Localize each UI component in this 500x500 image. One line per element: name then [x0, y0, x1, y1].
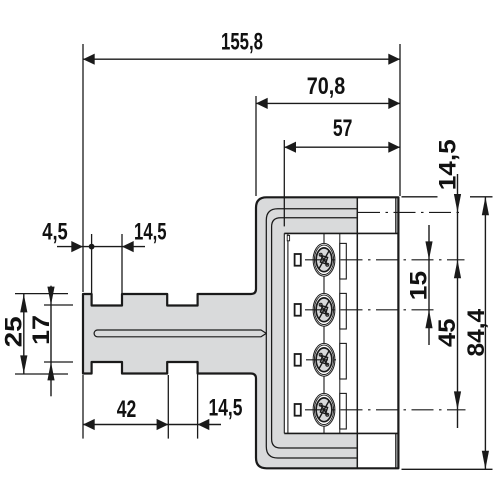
svg-text:25: 25 — [1, 316, 28, 347]
dimension 14,5 right — [434, 139, 461, 278]
housing outline stroke — [83, 197, 398, 468]
terminal screw 1 — [313, 243, 335, 276]
svg-text:14,5: 14,5 — [209, 395, 243, 422]
extension line x197.6 bottom — [197, 364, 199, 439]
svg-text:45: 45 — [434, 318, 461, 347]
extension line body bottom right (y469.3) — [402, 468, 493, 470]
terminal front left wall double line — [284, 233, 288, 433]
inner area bottom edge — [284, 432, 398, 434]
dimension 25 — [1, 294, 28, 374]
dimension 45 — [434, 260, 461, 428]
screw column line — [323, 233, 325, 433]
center line screw 1 — [305, 259, 465, 261]
conductor hole 1 — [295, 254, 301, 266]
extension line x168.3 bottom — [167, 375, 169, 439]
conductor hole 4 — [295, 404, 301, 416]
inner white front area of terminal block — [284, 233, 397, 433]
extension line arm bottom (y362) — [44, 361, 73, 363]
extension line tab top (y293.6) — [15, 293, 68, 295]
extension line x91.6 — [91, 234, 93, 293]
extension line tab bottom (y374) — [15, 373, 68, 375]
dimension 84,4 — [463, 197, 490, 470]
conductor hole 2 — [295, 304, 301, 316]
svg-text:17: 17 — [28, 315, 55, 345]
extension line right (x400) — [399, 44, 401, 196]
center line screw 3 — [306, 359, 340, 361]
wall line at x357 full height — [356, 197, 358, 468]
terminal screw 2 — [313, 293, 335, 326]
extension line inner wall (x284) — [283, 140, 285, 226]
clamp bracket 4 — [340, 393, 347, 429]
latch tick at inner top-left — [287, 235, 289, 240]
clamp bracket 2 — [340, 293, 347, 329]
dimension 15 — [406, 225, 433, 345]
inner area top edge — [284, 232, 398, 234]
housing wall bend line 3 — [272, 218, 357, 448]
svg-text:155,8: 155,8 — [221, 28, 263, 55]
svg-text:57: 57 — [333, 115, 353, 142]
svg-text:84,4: 84,4 — [463, 308, 490, 356]
center line screw 4 — [305, 409, 466, 411]
center line of top flange — [358, 211, 461, 213]
clamp bracket 3 — [340, 343, 347, 379]
clamp bracket 1 — [340, 243, 347, 279]
extension line left long (x83) — [82, 44, 84, 292]
clamp strip line — [339, 233, 341, 433]
extension line body top right (y196.8) — [402, 196, 493, 198]
dimension 42 — [83, 396, 221, 430]
svg-text:4,5: 4,5 — [42, 219, 68, 246]
extension line x83 bottom — [82, 375, 84, 439]
extension line x122 — [121, 234, 123, 293]
inner lip of top flange — [395, 197, 397, 233]
bottom-right white flange — [357, 433, 395, 468]
conductor hole 3 — [295, 354, 301, 366]
extension line body left (x256) — [255, 96, 257, 196]
dimension 4,5 with dot — [42, 219, 145, 253]
top-right white flange — [357, 197, 395, 233]
svg-text:14,5: 14,5 — [434, 139, 461, 190]
housing wall bend line 2 — [266, 209, 356, 458]
terminal screw 4 — [313, 393, 335, 426]
dimension 155,8 — [83, 28, 400, 64]
svg-text:14,5: 14,5 — [134, 219, 167, 246]
terminal screw 3 — [313, 343, 335, 376]
housing body with left mounting arm (gray fill) — [83, 197, 398, 468]
center line screw 2 — [305, 309, 437, 311]
dimension 57 — [284, 115, 400, 153]
svg-text:42: 42 — [117, 396, 137, 423]
svg-text:70,8: 70,8 — [307, 73, 346, 100]
dimension 17 — [28, 286, 55, 397]
keyway slot in arm — [94, 330, 266, 337]
dimension 70,8 — [256, 73, 400, 109]
inner lip of bottom flange — [395, 433, 397, 468]
extension line arm top (y305) — [44, 304, 73, 306]
svg-text:15: 15 — [406, 271, 433, 301]
